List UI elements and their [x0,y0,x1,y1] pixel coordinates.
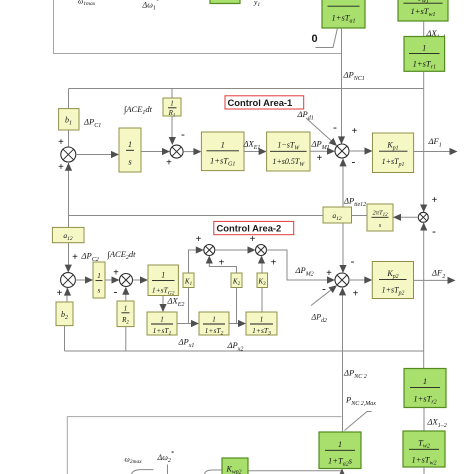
svg-text:+: + [57,288,63,299]
red box Control Area-2 [214,221,294,234]
wire K2 tap down [236,288,238,324]
block 1/(1+sTa1) (cut at top) [322,0,365,28]
wire SB output to S4 (dPM2) [267,250,336,284]
block 1/(1+sTG1) [201,132,244,171]
svg-text:+: + [352,126,358,137]
wire S2 to TG1 [183,148,201,155]
block 1/(1+sTr1) [404,37,445,72]
svg-text:-: - [114,286,118,298]
wire switch contact for PNC2Max [345,412,372,431]
svg-text:Control Area-1: Control Area-1 [228,97,293,108]
svg-text:+: + [271,258,277,269]
label dP_C2 [81,251,99,264]
block hydro turbine (1-sTw)/(1+s0.5Tw) [267,132,310,171]
label dP_NC2 [343,368,367,381]
wire b2 up into S5 bottom [64,288,71,302]
wire tie junction output left into 2piT12/s [393,214,418,221]
svg-text:+: + [58,162,64,173]
svg-text:s: s [98,286,101,295]
svg-text:1: 1 [338,439,342,449]
wire integrator to S2 [141,148,170,155]
wire TG2 down into T1 [159,296,166,313]
label dP_M1 [311,139,330,152]
wire dF1 output [414,148,458,155]
wire below delta omega2 [167,465,169,474]
wire T2 to T3 [229,320,246,327]
wire T1 to T2 [177,320,199,327]
label P_NC2,Max [345,395,376,408]
wire SA to SB [215,246,256,253]
wire K1 tap down [188,288,190,324]
block 1/R2 [117,301,134,327]
svg-text:+: + [113,268,119,279]
svg-text:+: + [58,137,64,148]
wire dF2 feedback column down [423,280,425,368]
label dX_1-2 [427,417,447,430]
sign minus S2 top [181,129,185,141]
wire K3 tap down to T3 [261,288,263,313]
summing junction S2 (governor 1) [170,145,183,158]
wire b2 down to feedback [64,326,66,351]
wire dF1 feedback horizontal [69,88,424,90]
wire dPNC2 up into S4 bottom [339,287,346,432]
svg-text:-: - [333,122,337,134]
svg-text:+: + [317,153,323,164]
label dP_M2 [295,265,314,278]
sign plus S5 top [72,252,78,263]
wire Tr1 down to tie junction (dF1 column) [420,71,427,212]
wire S5 output to integrator 2 [75,276,93,283]
label dP_NC1 [343,70,365,83]
label integral ACE2 dt [107,249,137,261]
sign plus S1 bottom [58,162,64,173]
label dP_C1 [83,117,101,130]
label dP_tie12 [343,196,366,209]
block integrator 1/s area-2 [93,262,105,298]
svg-text:1: 1 [128,139,132,149]
wire TG1 to hydro turbine block [244,148,267,155]
label dP_d1 [297,109,314,122]
svg-text:1: 1 [341,0,345,1]
block 1/(1+sTr2) [404,369,446,408]
wire S1 output to integrator [76,151,119,158]
svg-text:1: 1 [260,315,264,324]
wire disturbance dPd1 diagonal into S3 [306,118,337,146]
svg-text:1: 1 [423,376,427,386]
svg-text:+: + [72,252,78,263]
summing junction S5 (ACE2) [61,273,76,288]
label dF1 [428,136,442,149]
wire into Ta2 block bottom [248,469,346,474]
curve omega characteristic (cut at bottom) [132,470,154,474]
label dX_E2 [167,296,185,309]
summing junction SB [256,245,267,256]
subsystem box area-2 wind model frame [67,417,341,474]
sign plus S1 top [58,137,64,148]
sign minus tie junction bottom [432,226,436,238]
svg-text:1: 1 [170,100,174,108]
label integral ACE1 dt [123,104,153,116]
wire left column down to a12 left [68,216,70,228]
wire K3 up into SB bottom [258,256,265,274]
block 1/(1+sTG2) [148,265,178,296]
block 2piT12/s [367,204,393,231]
wire S3 to Kp1 [349,147,373,154]
block a12 right [323,207,352,223]
block K1 [183,273,194,288]
svg-text:1: 1 [97,271,101,280]
svg-text:-: - [351,256,355,268]
wire Tr2 to Tw2 [423,408,425,432]
svg-text:1: 1 [422,43,426,53]
svg-text:+: + [353,289,359,300]
sign plus SA bottom-right [219,258,225,269]
block 1/(1+Ta2s) [319,432,361,469]
svg-text:1: 1 [161,271,165,280]
svg-text:1: 1 [221,140,225,150]
wire dF2 output [414,277,456,284]
block a12 left [52,227,84,242]
wire tie signal up into S1 bottom [65,163,72,216]
block K3 [257,273,268,288]
wire integrator 2 to S6 [105,276,120,283]
svg-text:1: 1 [212,315,216,324]
label dP_d2 [311,313,327,325]
label y1 fragment (cut at top) [253,0,260,8]
sign minus tie input S3 [352,156,356,168]
svg-text:-: - [352,156,356,168]
wire Tw1 to Tr1 [423,21,425,37]
summing junction S6 (governor 2) [120,274,133,287]
label constant 0 [312,33,318,45]
svg-text:-: - [432,226,436,238]
label omega2max [125,455,143,466]
block Kp1/(1+sTp1) [373,133,414,173]
wire S4 to Kp2 [349,276,372,283]
svg-text:+: + [326,268,332,279]
sign plus S6 left [113,268,119,279]
svg-text:0: 0 [312,33,318,45]
svg-text:-: - [181,129,185,141]
summing junction S4 (area-2 power balance) [335,273,349,287]
summing junction S1 (ACE1) [61,147,76,162]
sign plus SB left [250,234,256,245]
sign minus dPd1 input [333,122,337,134]
block Tw2/(1+sTw2) [403,431,445,467]
block K2 [231,273,242,288]
subsystem box area-1 wind model frame [54,0,342,54]
sign plus dPM1 input [317,153,323,164]
wire 1/R1 down into S2 [169,116,176,145]
red box Control Area-1 [225,96,304,109]
wire K2 up into SA bottom [206,256,237,274]
label dX_1-1 [426,28,446,41]
wire hydro to S3 [310,148,335,155]
wire 2piT12/s to a12 [352,215,368,217]
sign plus SA left [196,234,202,245]
sign plus dPM2 input [326,268,332,279]
label delta omega1* (cut at top) [142,0,159,12]
wire S6 to TG2 [133,276,149,283]
svg-text:+: + [196,234,202,245]
wire dF2 up into tie junction [420,223,427,281]
svg-text:+: + [166,158,172,169]
block b1 [59,109,79,130]
wire feedback drop to b1 [68,89,70,109]
block b2 [56,302,73,326]
block 1/R1 [163,98,181,118]
wire a12 down to S4 top [339,223,346,273]
wire into Kwp2 with rounded corner [205,470,223,474]
wire tie-line long horizontal to left column [69,215,324,217]
svg-text:+: + [250,234,256,245]
sign plus SB bottom-right [271,258,277,269]
svg-text:+: + [432,195,438,206]
wire 1/R2 down to dF2 feedback [125,327,127,351]
wire Tw2 down (cut at bottom) [423,467,425,474]
summing junction SA [204,245,215,256]
svg-text:1: 1 [124,305,128,313]
summing junction S7 (tie-line dF1-dF2) [418,212,428,222]
wire 1/R2 up into S6 [122,287,129,301]
summing junction S3 (area-1 power balance) [335,144,349,158]
sign plus tie junction top [432,195,438,206]
wire dPnc1 from Ta1 block down to summing junction S3 [338,28,345,144]
sign plus S2 lower-left [166,158,172,169]
label dX_E1 [243,139,261,152]
wire switch contact for 0 input [316,28,338,48]
block Kp2/(1+sTp2) [372,262,413,299]
block Kwp2 [222,458,248,474]
label omega1max (cut at top) [78,0,96,7]
block integrator 1/s area-1 [119,128,141,172]
wire feedback drop to 1/R1 [171,89,173,99]
block 1/(1+sT3) [246,312,277,337]
block Kwp1 (cut at top) [210,0,240,4]
svg-text:Control Area-2: Control Area-2 [217,223,282,234]
label dP_x2 [227,340,244,353]
block Tw1/(1+sTw1) (cut at top) [398,0,448,21]
sign minus S4 top [351,256,355,268]
svg-text:-: - [322,283,326,295]
label dP_x1 [178,337,195,350]
sign plus dPNC1 input [352,126,358,137]
wire a12 left down into S5 [65,243,72,273]
block 1/(1+sT1) [147,312,177,337]
sign minus dPd2 input [322,283,326,295]
sign plus S5 bottom [57,288,63,299]
wire dF2 feedback horizontal [65,350,424,352]
wire tie-line up into S3 bottom [339,158,346,207]
sign plus S4 bottom [353,289,359,300]
svg-text:1: 1 [160,315,164,324]
label delta omega2* [157,451,174,464]
wire b1 to summing junction S1 [68,130,70,147]
sign minus S6 bottom-left [114,286,118,298]
block 1/(1+sT2) [199,312,229,337]
label dF2 [431,268,445,281]
wire K1 up into SA [189,246,204,273]
wire disturbance dPd2 diagonal into S4 [311,285,337,305]
